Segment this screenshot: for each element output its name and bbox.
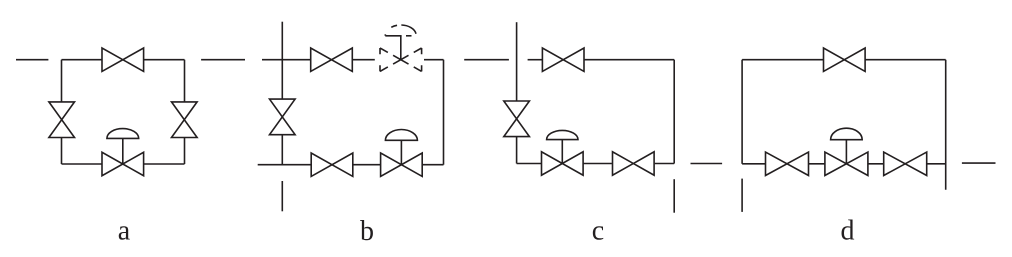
wire: fig d bottom rail segment 1 (742, 163, 765, 165)
wire: fig d right riser (extends below bottom rail) (945, 60, 947, 190)
wire: loop a bottom rail right segment (144, 163, 185, 165)
actuator dome of valve A4 (107, 129, 139, 139)
actuator dome arc of valve B3 (dashed segments) (385, 25, 416, 36)
wire: fig d bottom rail segment 4 (927, 163, 946, 165)
valve C1 (gate valve, left pipe of c) (504, 101, 530, 137)
pipe break dash below fig d left riser (741, 179, 743, 212)
valve D2 (gate valve, bottom rail of d) (766, 152, 809, 175)
wire: loop a right riser lower segment (184, 138, 186, 164)
svg-text:c: c (592, 216, 604, 247)
svg-text:a: a (118, 216, 131, 247)
valve C2 (gate valve, top rail of c) (542, 48, 584, 71)
valve C4 (gate valve, bottom rail of c) (613, 152, 655, 175)
wire: fig b top rail right segment (424, 59, 444, 61)
wire: fig c bottom rail right segment (655, 163, 675, 165)
pipe break dash right of loop a (201, 59, 245, 61)
valve B1 (gate valve, left pipe of b) (270, 99, 296, 135)
actuator dome of valve D3 (831, 128, 863, 140)
wire: loop a bottom rail left segment (62, 163, 103, 165)
valve A2 (gate valve, left riser of a) (49, 102, 75, 138)
stem of valve C3 (561, 140, 563, 164)
wire: fig d top rail left segment (742, 59, 823, 61)
wire: fig c right downcomer (673, 60, 675, 164)
valve C3 (control valve, bottom rail of c) (542, 152, 584, 175)
wire: fig b left pipe lower segment (281, 135, 283, 165)
wire: fig d top rail right segment (865, 59, 946, 61)
wire: fig d bottom rail segment 3 (868, 163, 884, 165)
valve B4 (gate valve, bottom rail of b) (311, 153, 353, 176)
wire: fig b bottom rail right segment (422, 164, 443, 166)
pipe break dash below fig b left pipe (281, 181, 283, 211)
pipe break dash right of fig c (691, 163, 723, 165)
pipe break dash right of fig d (962, 162, 996, 164)
wire: loop a top rail right segment (144, 59, 185, 61)
wire: fig b bottom rail left segment (258, 164, 312, 166)
valve B5 (control valve, bottom rail of b) (381, 153, 423, 176)
pipe break dash left of loop a (16, 59, 48, 61)
valve A4 (control valve, bottom rail of a) (102, 152, 144, 175)
wire: fig b top rail middle segment (352, 59, 375, 61)
wire: fig c top rail left segment (528, 59, 543, 61)
wire: loop a left riser upper segment (61, 60, 63, 102)
wire: loop a left riser lower segment (61, 138, 63, 165)
valve A1 (gate valve, top rail of a) (102, 48, 144, 71)
wire: fig c bottom rail middle segment (583, 163, 612, 165)
svg-text:d: d (841, 216, 855, 247)
wire: fig b top rail left segment (262, 59, 311, 61)
wire: fig b left pipe upper segment (281, 22, 283, 99)
stem of valve B5 (400, 140, 402, 164)
svg-text:b: b (360, 216, 374, 247)
wire: fig c left pipe lower segment (516, 137, 518, 164)
wire: fig c top rail right segment (584, 59, 674, 61)
valve A3 (gate valve, right riser of a) (172, 102, 198, 138)
actuator dome of valve C3 (547, 130, 578, 139)
pipe break dash below fig c right downcomer (673, 179, 675, 213)
stem of valve A4 (122, 138, 124, 164)
actuator dome base of valve B3 (solid left part) (385, 35, 401, 37)
valve D4 (gate valve, bottom rail of d) (884, 152, 927, 175)
wire: loop a top rail left segment (62, 59, 103, 61)
valve B2 (gate valve, top rail of b) (311, 48, 353, 71)
wire: fig d left riser (741, 60, 743, 164)
valve B3 (future control valve, dashed, top rail of b) (380, 48, 422, 71)
wire: fig d bottom rail segment 2 (809, 163, 825, 165)
wire: fig c bottom rail left segment (517, 163, 542, 165)
wire: fig b right downcomer (443, 60, 445, 165)
wire: fig c left pipe upper segment (516, 22, 518, 101)
wire: loop a right riser upper segment (184, 60, 186, 102)
actuator dome of valve B5 (385, 130, 417, 141)
valve D1 (gate valve, top rail of d) (824, 48, 866, 71)
stem of valve D3 (845, 140, 847, 164)
valve D3 (control valve, bottom rail of d) (825, 152, 868, 175)
actuator dome base dash of valve B3 (406, 35, 412, 37)
wire: fig b bottom rail middle segment (353, 164, 381, 166)
pipe break dash left of fig c (464, 59, 509, 61)
stem of valve B3 (400, 36, 402, 60)
